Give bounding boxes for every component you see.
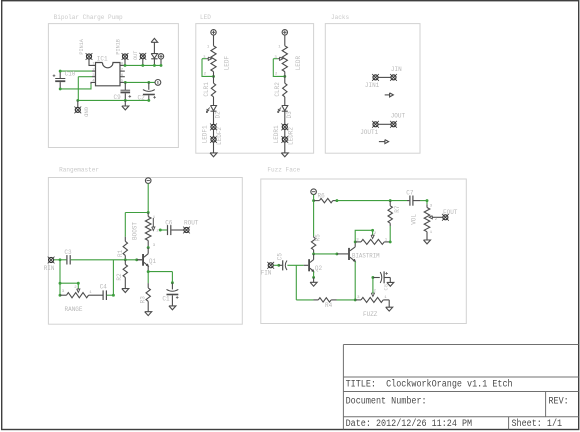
svg-text:LEDR1: LEDR1 — [273, 125, 280, 143]
svg-text:REV:: REV: — [549, 397, 569, 408]
svg-text:RIN: RIN — [44, 265, 55, 272]
svg-text:FIN: FIN — [261, 270, 272, 277]
svg-text:LEDR: LEDR — [295, 56, 302, 71]
svg-text:LEDR2: LEDR2 — [287, 127, 294, 145]
svg-text:Document Number:: Document Number: — [346, 396, 427, 408]
svg-text:Rangemaster: Rangemaster — [59, 166, 99, 173]
svg-text:C1: C1 — [162, 295, 169, 302]
svg-text:LEDF1: LEDF1 — [202, 125, 209, 143]
svg-text:LEDF: LEDF — [224, 56, 231, 71]
svg-text:PIN1A: PIN1A — [78, 39, 85, 55]
svg-text:VOL: VOL — [410, 214, 417, 225]
svg-text:ROUT: ROUT — [184, 219, 199, 226]
svg-text:JIN1: JIN1 — [365, 82, 380, 89]
svg-text:FOUT: FOUT — [443, 209, 458, 216]
svg-text:Fuzz Face: Fuzz Face — [267, 166, 300, 173]
svg-text:FUZZ: FUZZ — [363, 311, 378, 318]
svg-text:D3: D3 — [286, 111, 293, 118]
svg-text:LEDF2: LEDF2 — [216, 127, 223, 145]
svg-text:JOUT1: JOUT1 — [360, 129, 378, 136]
svg-text:TITLE: ClockworkOrange v1.1 E: TITLE: ClockworkOrange v1.1 Etch — [346, 379, 513, 391]
svg-text:C3: C3 — [64, 249, 71, 256]
svg-text:PIN1B: PIN1B — [114, 39, 121, 55]
svg-text:C7: C7 — [406, 189, 413, 196]
svg-text:R7: R7 — [394, 205, 401, 212]
svg-text:R5: R5 — [315, 234, 322, 241]
svg-text:Date: 2012/12/26 11:24 PM: Date: 2012/12/26 11:24 PM — [346, 418, 473, 430]
svg-text:JOUT: JOUT — [391, 112, 406, 119]
svg-text:LED: LED — [200, 14, 211, 21]
svg-text:OUT: OUT — [132, 50, 139, 60]
svg-text:D2: D2 — [215, 111, 222, 118]
svg-text:CLR2: CLR2 — [274, 82, 281, 97]
svg-text:C6: C6 — [165, 219, 172, 226]
svg-text:GND: GND — [82, 107, 89, 117]
svg-text:JIN: JIN — [391, 66, 402, 73]
svg-text:R1: R1 — [117, 250, 124, 257]
svg-text:C4: C4 — [100, 283, 107, 290]
svg-text:R3: R3 — [140, 296, 147, 303]
svg-text:RANGE: RANGE — [65, 306, 83, 313]
svg-text:Bipolar Charge Pump: Bipolar Charge Pump — [54, 14, 123, 21]
svg-text:Sheet: 1/1: Sheet: 1/1 — [512, 418, 563, 430]
svg-text:C10: C10 — [65, 71, 76, 78]
svg-text:Jacks: Jacks — [331, 14, 349, 21]
svg-text:IC1: IC1 — [97, 56, 108, 63]
svg-text:C5: C5 — [277, 253, 284, 260]
svg-text:C8: C8 — [383, 284, 390, 290]
svg-text:BOOST: BOOST — [132, 222, 139, 240]
svg-text:R2: R2 — [116, 273, 123, 280]
svg-text:R4: R4 — [325, 302, 332, 309]
svg-text:Q2: Q2 — [315, 265, 322, 272]
svg-text:R6: R6 — [318, 193, 325, 200]
svg-text:CLR1: CLR1 — [203, 82, 210, 97]
svg-text:Q1: Q1 — [149, 258, 156, 265]
svg-text:BIASTRIM: BIASTRIM — [352, 253, 380, 260]
